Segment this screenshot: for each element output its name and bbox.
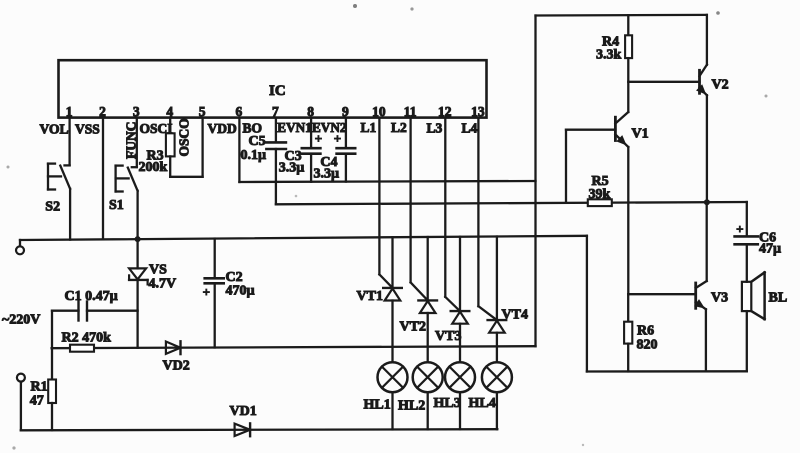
svg-text:HL3: HL3	[434, 396, 461, 411]
svg-text:L4: L4	[462, 121, 478, 136]
svg-text:V2: V2	[712, 78, 729, 93]
svg-text:L1: L1	[361, 120, 377, 135]
svg-text:47: 47	[30, 394, 44, 409]
svg-text:IC: IC	[269, 83, 286, 99]
svg-text:470µ: 470µ	[226, 284, 255, 299]
svg-text:VT2: VT2	[400, 320, 426, 335]
svg-text:820: 820	[637, 338, 658, 353]
svg-text:S1: S1	[109, 198, 124, 213]
svg-text:+: +	[315, 131, 322, 146]
svg-text:C5: C5	[249, 134, 266, 149]
svg-text:3.3k: 3.3k	[596, 48, 622, 63]
svg-text:VD2: VD2	[163, 359, 190, 374]
svg-text:R6: R6	[637, 324, 654, 339]
svg-text:0.1µ: 0.1µ	[241, 148, 267, 163]
svg-text:VT4: VT4	[502, 308, 528, 323]
svg-text:HL4: HL4	[469, 396, 496, 411]
svg-text:VS: VS	[149, 263, 167, 278]
svg-text:47µ: 47µ	[759, 242, 781, 257]
svg-text:VT1: VT1	[357, 289, 383, 304]
svg-text:OSCO: OSCO	[176, 118, 191, 156]
svg-text:VD1: VD1	[230, 404, 257, 419]
svg-text:3.3µ: 3.3µ	[314, 166, 340, 181]
svg-text:+: +	[736, 222, 743, 237]
svg-text:C1 0.47µ: C1 0.47µ	[65, 289, 118, 304]
svg-text:4.7V: 4.7V	[149, 277, 177, 292]
svg-text:R2 470k: R2 470k	[62, 331, 112, 346]
svg-text:L2: L2	[391, 120, 407, 135]
svg-text:V3: V3	[711, 291, 728, 306]
svg-text:V1: V1	[632, 127, 649, 142]
svg-text:3.3µ: 3.3µ	[279, 160, 305, 175]
svg-text:200k: 200k	[139, 160, 168, 175]
svg-text:BL: BL	[769, 291, 788, 306]
svg-text:R1: R1	[31, 380, 48, 395]
svg-text:VDD: VDD	[208, 121, 237, 136]
svg-text:VT3: VT3	[435, 329, 461, 344]
svg-text:VOL: VOL	[40, 121, 69, 136]
svg-text:S2: S2	[45, 200, 60, 215]
svg-text:VSS: VSS	[75, 121, 100, 136]
svg-text:+: +	[203, 285, 210, 300]
svg-text:HL2: HL2	[398, 399, 425, 414]
svg-text:+: +	[334, 131, 341, 146]
svg-text:~220V: ~220V	[2, 313, 40, 328]
svg-text:HL1: HL1	[364, 398, 391, 413]
svg-text:L3: L3	[427, 121, 443, 136]
svg-text:39k: 39k	[589, 187, 611, 202]
svg-text:EVN1: EVN1	[277, 120, 311, 135]
